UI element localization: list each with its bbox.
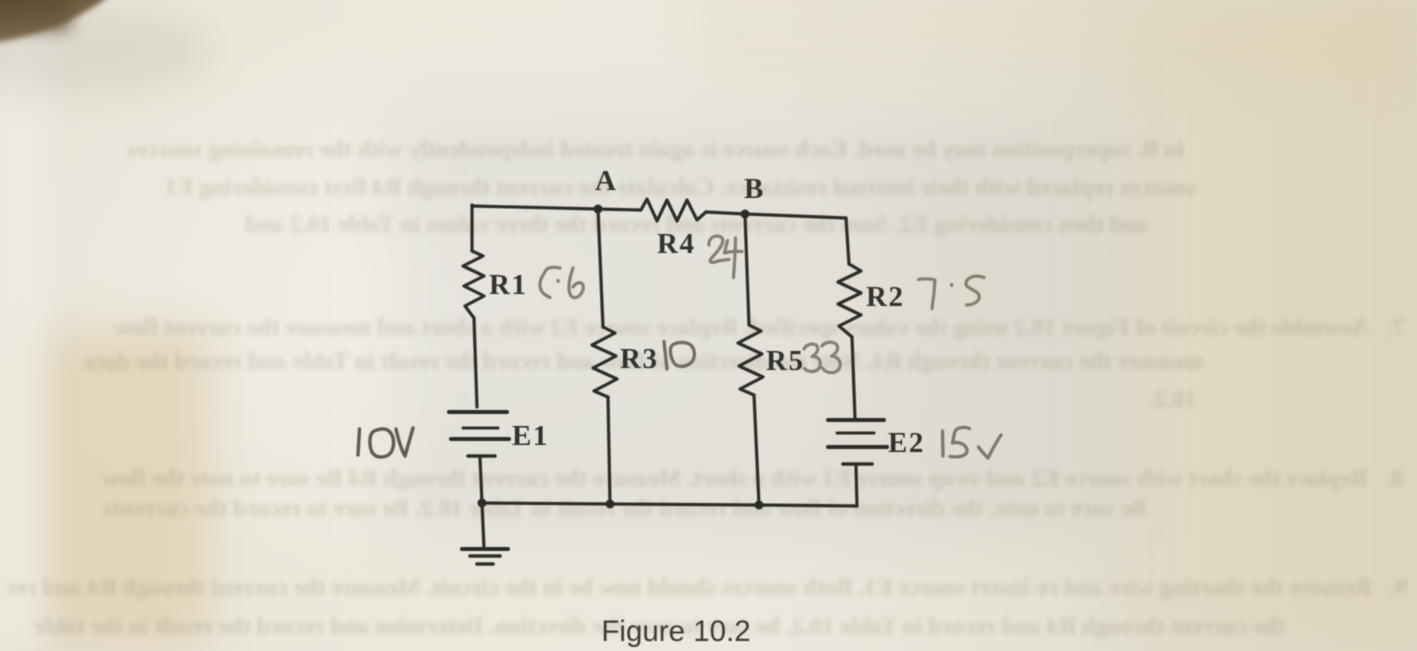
wire node A to R4: [598, 209, 641, 210]
handwritten 24 for R4: [709, 236, 729, 262]
resistor R5: [738, 325, 763, 395]
cool gray cast over circuit area: [400, 110, 1120, 540]
wire R1 to E1: [474, 318, 477, 407]
node B dot: [741, 210, 750, 219]
battery E1: [449, 410, 507, 414]
junction dot bottom R5: [755, 501, 764, 510]
wire node A down to R3: [598, 209, 603, 327]
svg-text:R1: R1: [489, 269, 527, 301]
svg-text:E2: E2: [888, 427, 925, 459]
wire bottom rail: [482, 503, 857, 506]
svg-text:A: A: [595, 165, 617, 197]
svg-text:R4: R4: [657, 228, 695, 260]
resistor R1: [463, 251, 484, 318]
wire E2 to bottom: [856, 466, 857, 506]
handwritten 15V for E2: [943, 427, 1002, 458]
resistor R2: [838, 264, 861, 337]
left edge light: [0, 0, 50, 651]
wire E1 to bottom junction: [480, 458, 482, 503]
resistor R4: [641, 199, 706, 221]
wire node B down to R5: [745, 214, 749, 325]
svg-text:R5: R5: [766, 345, 804, 377]
handwritten 10V for E1: [358, 428, 413, 457]
node A dot: [594, 205, 603, 214]
dark table corner top-left: [0, 0, 140, 48]
wire right vertical to R2: [846, 218, 849, 264]
wire R5 to bottom: [754, 395, 759, 505]
battery E2: [828, 418, 884, 422]
svg-text:R3: R3: [620, 343, 658, 375]
wire R2 to E2: [852, 337, 855, 418]
ghost bleed-through text rows (mirrored): [127, 137, 1185, 164]
wire R3 to bottom: [608, 397, 610, 504]
resistor R3: [592, 327, 617, 397]
svg-text:E1: E1: [512, 420, 549, 452]
svg-text:R2: R2: [866, 281, 904, 313]
ground stem: [482, 503, 484, 548]
junction dot bottom-left: [478, 499, 487, 508]
handwritten 7.5 for R2: [919, 279, 936, 309]
handwritten 5.6 for R1: [540, 267, 560, 297]
junction dot bottom R3: [606, 500, 615, 509]
wire R4 to node B: [706, 212, 745, 214]
wire top-left to node A: [472, 206, 598, 209]
wire left vertical top: [470, 205, 473, 251]
svg-text:Figure 10.2: Figure 10.2: [601, 615, 750, 648]
ground bars: [462, 547, 508, 551]
wire node B to top-right corner: [745, 214, 846, 218]
handwritten 10 for R3: [664, 342, 694, 370]
warm stripe bottom-left: [20, 330, 210, 651]
handwritten 33 for R5: [804, 344, 820, 371]
warm top band right: [700, 0, 1417, 80]
svg-text:B: B: [744, 173, 765, 205]
